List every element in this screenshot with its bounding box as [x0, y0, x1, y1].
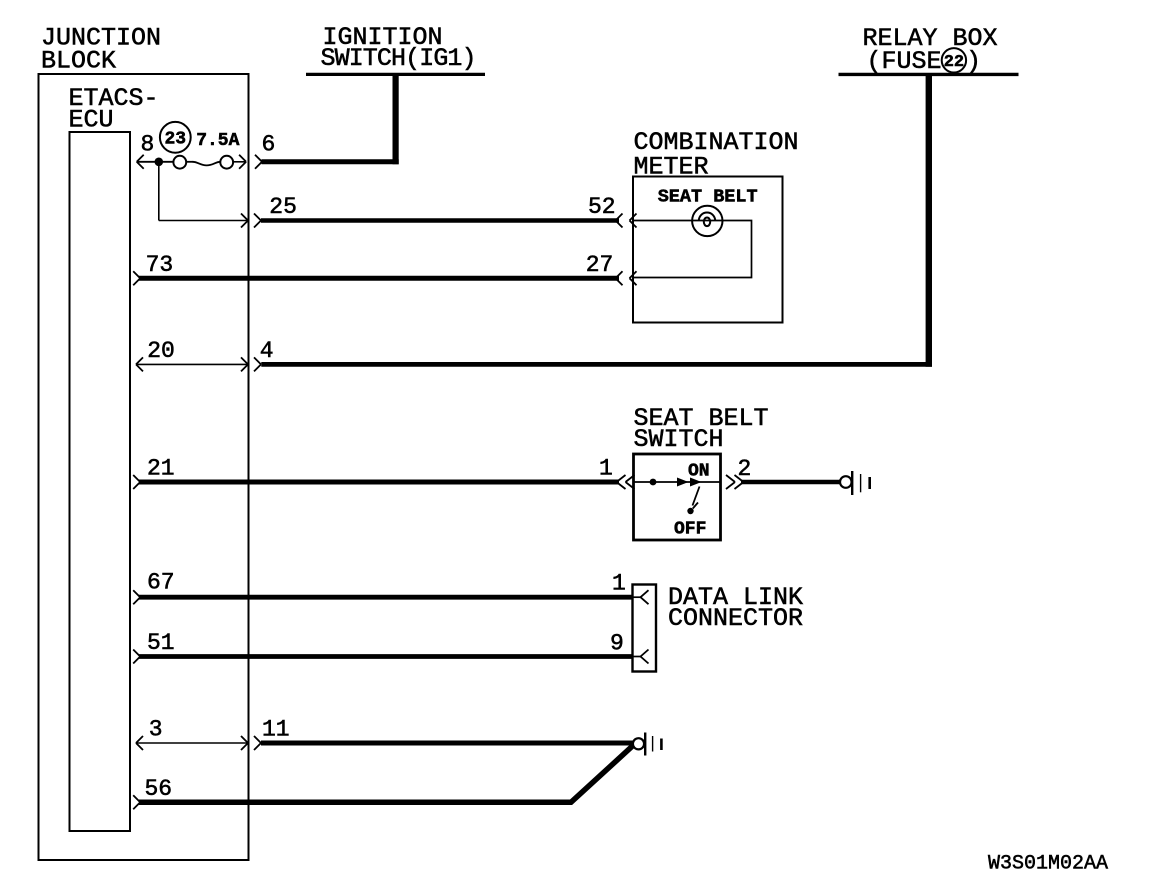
svg-text:22: 22 [944, 53, 964, 72]
svg-text:8: 8 [141, 132, 155, 158]
svg-text:CONNECTOR: CONNECTOR [668, 604, 803, 633]
svg-text:1: 1 [612, 571, 626, 597]
svg-text:11: 11 [262, 717, 290, 743]
svg-text:): ) [966, 47, 981, 76]
svg-text:27: 27 [586, 252, 614, 278]
svg-text:23: 23 [164, 130, 186, 150]
svg-text:SEAT BELT: SEAT BELT [658, 186, 758, 207]
svg-text:52: 52 [588, 194, 616, 220]
svg-text:SWITCH(IG1): SWITCH(IG1) [321, 44, 476, 73]
svg-text:METER: METER [634, 153, 709, 182]
svg-text:9: 9 [610, 631, 624, 657]
svg-text:25: 25 [269, 194, 297, 220]
svg-text:2: 2 [738, 456, 752, 482]
svg-text:BLOCK: BLOCK [41, 46, 116, 75]
svg-text:W3S01M02AA: W3S01M02AA [988, 852, 1108, 875]
svg-text:ECU: ECU [69, 106, 114, 135]
svg-text:7.5A: 7.5A [196, 131, 239, 151]
svg-text:56: 56 [145, 776, 173, 802]
svg-text:20: 20 [147, 338, 175, 364]
svg-text:6: 6 [262, 132, 276, 158]
svg-text:OFF: OFF [674, 519, 706, 539]
svg-text:3: 3 [149, 717, 163, 743]
svg-text:73: 73 [146, 252, 174, 278]
svg-text:(FUSE: (FUSE [867, 47, 942, 76]
svg-text:67: 67 [147, 570, 175, 596]
svg-text:51: 51 [147, 630, 175, 656]
svg-text:ON: ON [688, 461, 710, 481]
svg-text:1: 1 [599, 456, 613, 482]
svg-text:21: 21 [147, 456, 175, 482]
svg-text:SWITCH: SWITCH [634, 425, 724, 454]
svg-text:4: 4 [260, 338, 274, 364]
